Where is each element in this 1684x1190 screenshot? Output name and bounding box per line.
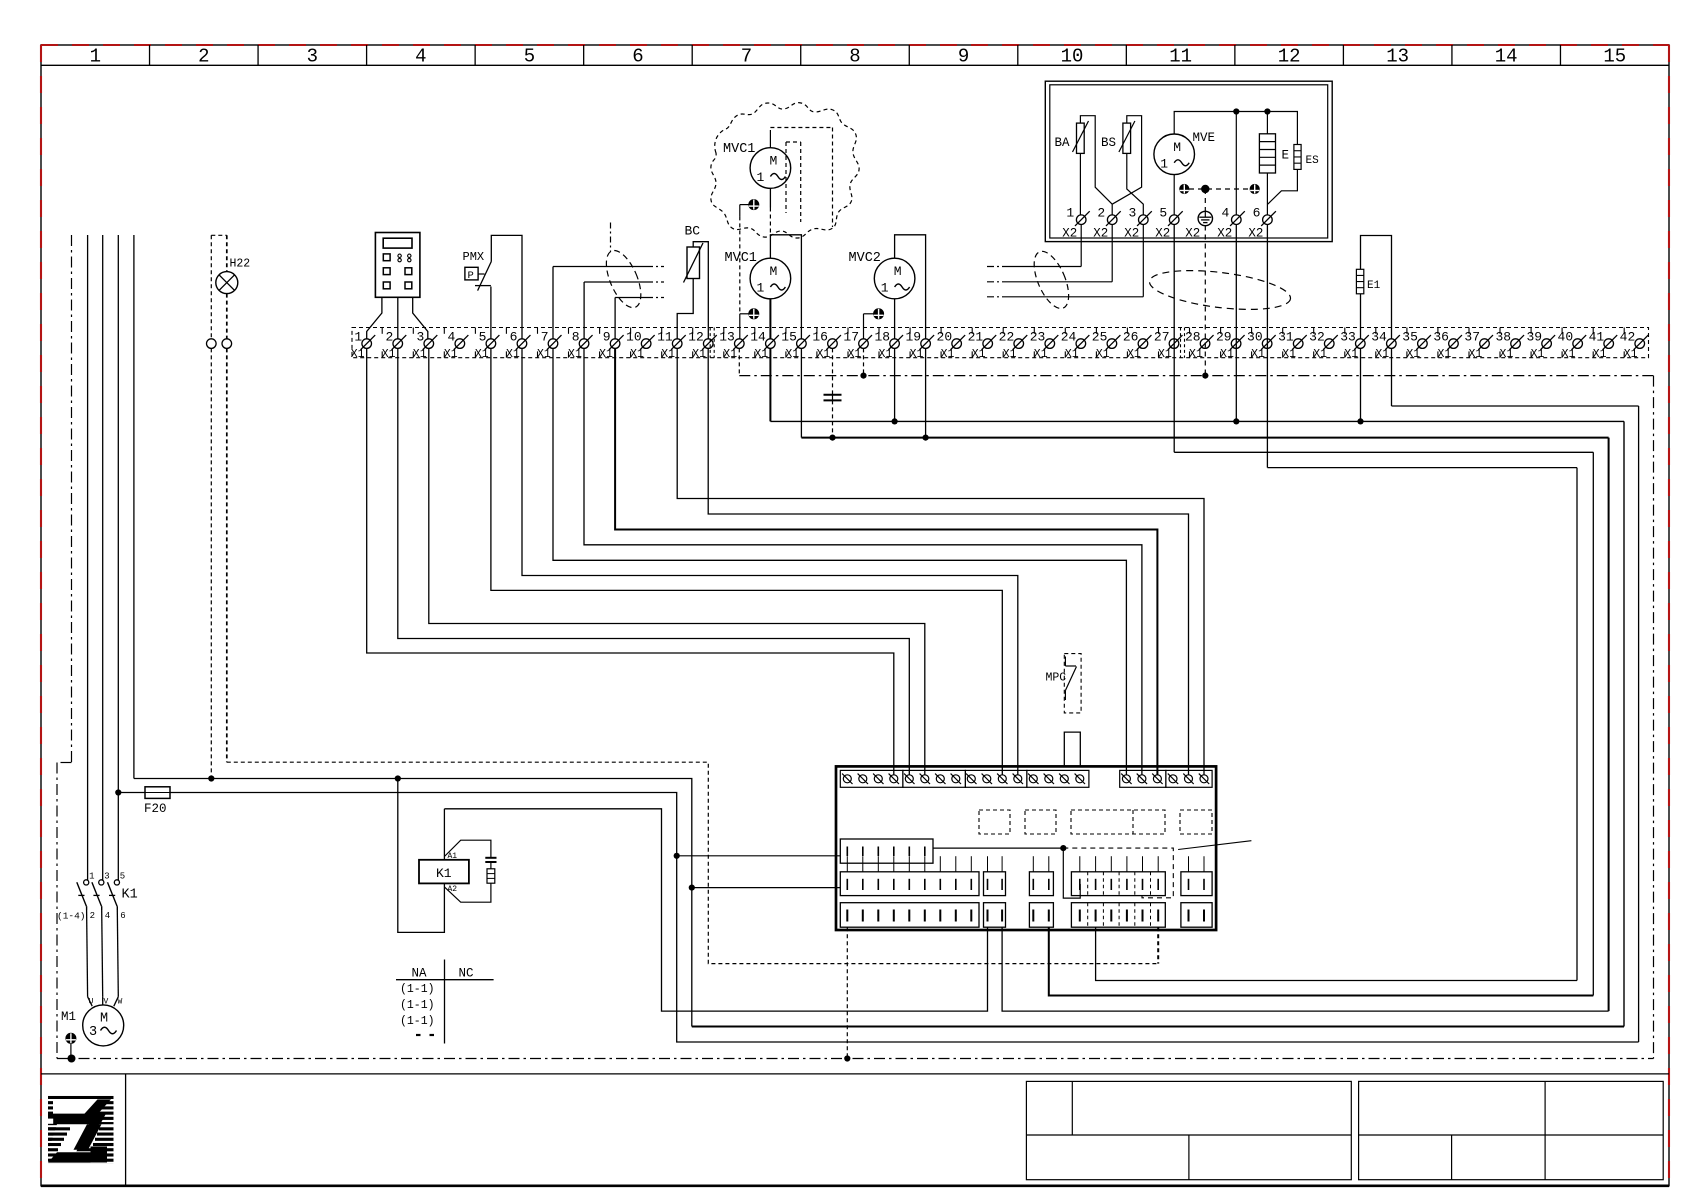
MVC2 earth symbol [874, 309, 884, 319]
terminal X1:33 [1340, 330, 1369, 362]
wire MVC1 to X1:14 [769, 299, 771, 339]
svg-text:37: 37 [1464, 330, 1480, 345]
wire J1 internal link [933, 847, 1063, 849]
svg-text:(1-1): (1-1) [400, 983, 435, 996]
svg-text:4: 4 [105, 911, 110, 921]
fuse ES [1294, 145, 1301, 170]
junction X1:33 neutral [1360, 348, 1362, 421]
svg-text:39: 39 [1526, 330, 1542, 345]
wire BC to X1:12 [693, 242, 708, 339]
junction X1:18 neutral [894, 348, 896, 421]
svg-text:20: 20 [937, 330, 953, 345]
H22 connector contact left [207, 339, 217, 349]
svg-text:28: 28 [1185, 330, 1201, 345]
motor M1 leads [88, 997, 93, 1007]
terminal X1:29 [1216, 330, 1245, 362]
H22 branch left dashed wire [210, 235, 212, 338]
terminal X1:13 [719, 330, 748, 362]
terminal X2:5 [1155, 205, 1183, 240]
svg-text:1: 1 [756, 170, 764, 185]
svg-text:A2: A2 [448, 885, 458, 894]
terminal X1:11 [657, 330, 686, 362]
svg-text:2: 2 [1097, 205, 1105, 220]
svg-text:16: 16 [812, 330, 828, 345]
cable marker ellipse middle [1027, 247, 1076, 314]
relay coil K1 [419, 860, 469, 884]
terminal X2:3 [1124, 205, 1152, 240]
terminal X1:23 [1030, 330, 1059, 362]
H22 return dashed net [227, 762, 1158, 963]
junction earth bus X1:28 [1202, 373, 1208, 379]
rail neutral MVE right [1623, 421, 1625, 1026]
rail neutral MVC right [1608, 438, 1610, 1012]
svg-text:U: U [89, 997, 94, 1006]
terminal X1:10 [626, 330, 655, 362]
svg-text:X1: X1 [1500, 348, 1514, 361]
svg-text:21: 21 [968, 330, 984, 345]
MPC jumper loop to control unit [1064, 732, 1080, 766]
svg-text:X1: X1 [910, 348, 924, 361]
terminal X1:15 [781, 330, 810, 362]
connector J4 row2 small B [1029, 872, 1053, 896]
connector J5 row2 wide [1071, 872, 1165, 896]
svg-text:MPC: MPC [1046, 672, 1067, 685]
wire X2:2 to cable [1111, 225, 1113, 282]
svg-text:8: 8 [849, 46, 860, 68]
svg-text:E: E [1282, 149, 1290, 163]
fuse F20 [145, 787, 170, 799]
svg-text:X1: X1 [1437, 348, 1451, 361]
MPC dashed enclosure [1064, 654, 1081, 713]
terminal X1:17 [843, 330, 872, 362]
svg-text:X1: X1 [630, 348, 644, 361]
svg-text:34: 34 [1371, 330, 1387, 345]
terminal X1:1 [351, 330, 376, 362]
terminal X2:4 [1217, 205, 1245, 240]
svg-text:3: 3 [104, 872, 109, 882]
connector J7 row3 long [840, 903, 979, 928]
connector J8 row3 small A [984, 903, 1006, 928]
lamp H22 [216, 258, 251, 294]
svg-text:11: 11 [1169, 46, 1192, 68]
terminal X1:42 [1620, 330, 1649, 362]
wire ES bottom diagonal [1267, 169, 1297, 204]
svg-text:X1: X1 [444, 348, 458, 361]
terminal X1:5 [475, 330, 500, 362]
unit box X2 outer [1045, 81, 1332, 241]
svg-text:(1-1): (1-1) [400, 999, 435, 1012]
wire X1:8 to control unit [584, 348, 1142, 775]
svg-text:X1: X1 [723, 348, 737, 361]
svg-text:4: 4 [448, 330, 456, 345]
wire MVE top rail [1174, 112, 1297, 145]
svg-text:1: 1 [1066, 205, 1074, 220]
screw terminal group 2 [903, 770, 966, 787]
cable marker ellipse left [599, 246, 648, 313]
neutral bus MVE [770, 420, 1624, 422]
svg-text:41: 41 [1589, 330, 1605, 345]
option earth dashed down to X1:13 [739, 216, 741, 313]
terminal X1:28 [1185, 330, 1214, 362]
svg-text:X1: X1 [413, 348, 427, 361]
connector J1 row1 [840, 839, 933, 863]
wire BS bottom [1127, 153, 1144, 215]
junction M1 earth to PE [68, 1055, 76, 1063]
dashed jumper box 1 [979, 810, 1010, 834]
svg-text:X2: X2 [1124, 227, 1139, 241]
terminal X1:27 [1154, 330, 1183, 362]
PE right riser dash-dot [1653, 376, 1655, 1059]
svg-text:M: M [769, 264, 777, 279]
cable marker ellipse right [1147, 264, 1292, 316]
wire X2:5 down through X1:27 [1173, 225, 1175, 453]
wire X1:3 to control unit [429, 348, 925, 775]
controller keypad unit [375, 233, 420, 298]
svg-text:P: P [468, 270, 474, 282]
wire MVE bottom to X2:5 [1173, 175, 1175, 215]
wire MVC2 to X1:19 [895, 235, 926, 339]
wire X1:34 net right [1391, 348, 1393, 406]
wire X2:4 drop [1235, 112, 1237, 216]
svg-text:X1: X1 [475, 348, 489, 361]
contactor K1 main contact 3/4 [92, 872, 110, 997]
screw terminal group 1 [840, 770, 903, 787]
svg-text:6: 6 [1253, 205, 1261, 220]
svg-text:ES: ES [1306, 155, 1320, 167]
H22 connector contact right [222, 339, 232, 349]
heater E1 [1356, 269, 1363, 294]
terminal X2:1 [1062, 205, 1090, 240]
svg-text:F20: F20 [144, 802, 167, 816]
wire CU J10 to X2:6 rail [1096, 927, 1577, 980]
wire X1:12 to control unit [708, 348, 1188, 775]
screw terminal group 6 [1166, 770, 1212, 787]
junction K1 feed [395, 775, 401, 781]
terminal X1:24 [1061, 330, 1090, 362]
control unit U1 box [836, 766, 1216, 930]
option motor bottom wire [769, 188, 771, 207]
X2 earth dashed drop [1204, 189, 1206, 212]
terminal X1:3 [413, 330, 438, 362]
rail X2:6 right [1576, 468, 1578, 981]
connector J9 row3 small B [1029, 903, 1053, 928]
svg-text:X1: X1 [351, 348, 365, 361]
wire X1:15 drop [800, 348, 802, 437]
terminal X1:38 [1495, 330, 1524, 362]
title band separator [41, 1073, 1669, 1075]
junction F20 tap [115, 789, 121, 795]
svg-text:X1: X1 [1469, 348, 1483, 361]
svg-text:A1: A1 [448, 852, 458, 861]
wire X1:17 earth dashed to PE bus [863, 348, 865, 375]
wire N net to rail [692, 1026, 1624, 1028]
svg-text:X1: X1 [1406, 348, 1420, 361]
svg-text:12: 12 [688, 330, 704, 345]
controller wire to X1:2 [397, 297, 399, 339]
svg-text:40: 40 [1558, 330, 1574, 345]
svg-text:X1: X1 [1251, 348, 1265, 361]
option motor top dashed link [769, 134, 771, 148]
svg-text:X1: X1 [1282, 348, 1296, 361]
svg-text:2: 2 [90, 911, 95, 921]
motor MVC1 (option) [750, 148, 791, 189]
rail X1:34 right [1638, 406, 1640, 1042]
option earth bracket [740, 204, 749, 206]
wire X2:1 to cable [1080, 225, 1082, 267]
X2 earth dashed link [1189, 188, 1250, 190]
wire MVC1 to X1:15 [770, 235, 801, 339]
svg-text:X1: X1 [1531, 348, 1545, 361]
wire PMX to X1:6 [491, 235, 522, 338]
svg-text:2: 2 [385, 330, 393, 345]
svg-text:H22: H22 [230, 258, 251, 271]
svg-text:X1: X1 [941, 348, 955, 361]
svg-text:9: 9 [958, 46, 969, 68]
wire X2:3 to cable [1142, 225, 1144, 297]
H22 branch right dashed wire [226, 235, 228, 271]
svg-text:14: 14 [1495, 46, 1518, 68]
svg-text:BA: BA [1055, 136, 1071, 150]
svg-text:X1: X1 [816, 348, 830, 361]
svg-text:2: 2 [198, 46, 209, 68]
switch MPC [1065, 657, 1076, 701]
svg-text:10: 10 [626, 330, 642, 345]
svg-text:X1: X1 [382, 348, 396, 361]
title block boxes [1026, 1081, 1663, 1179]
svg-text:X1: X1 [1562, 348, 1576, 361]
wire CU earth dashed drop [846, 927, 848, 1058]
wire X1:5 to control unit [491, 348, 1002, 775]
sensor BS [1119, 121, 1135, 153]
strip section divider X1:12/13 [709, 328, 711, 358]
ruler band [41, 64, 1669, 66]
svg-text:K1: K1 [122, 888, 138, 903]
svg-text:33: 33 [1340, 330, 1356, 345]
wire X1:14 neutral drop [769, 348, 771, 421]
svg-text:BC: BC [685, 224, 701, 239]
X2 earth symbol left [1180, 184, 1189, 193]
wire CU row1 to F20 net [677, 855, 841, 857]
svg-text:E1: E1 [1367, 280, 1381, 292]
wire phase to F20 [118, 792, 145, 794]
svg-text:NC: NC [459, 967, 474, 981]
svg-text:X1: X1 [1313, 348, 1327, 361]
svg-text:X1: X1 [568, 348, 582, 361]
wire E1 bottom to X1:33 [1360, 294, 1362, 339]
wire BA bottom [1079, 153, 1081, 215]
junction X1:17 PE [860, 373, 866, 379]
svg-text:36: 36 [1433, 330, 1449, 345]
wire X2:5 net right [1174, 451, 1593, 453]
strip section divider X1:27/28 [1180, 328, 1182, 358]
motor MVE [1154, 134, 1195, 175]
snubber branch top [444, 840, 491, 857]
sensor BA [1073, 121, 1089, 153]
svg-text:42: 42 [1620, 330, 1636, 345]
terminal X1:19 [905, 330, 934, 362]
svg-text:X2: X2 [1155, 227, 1170, 241]
terminal X1:25 [1092, 330, 1121, 362]
svg-text:(1-1): (1-1) [400, 1015, 435, 1028]
dashed jumper box 4 [1180, 810, 1212, 834]
svg-text:X1: X1 [692, 348, 706, 361]
svg-text:10: 10 [1061, 46, 1084, 68]
feeder line L2 [102, 235, 104, 881]
contactor K1 main contact 5/6 [108, 872, 126, 997]
terminal X1:8 [568, 330, 593, 362]
snubber branch bottom [444, 883, 491, 902]
neutral bus MVC [801, 437, 1608, 439]
controller wire to X1:3 [413, 297, 428, 339]
svg-text:MVC1: MVC1 [725, 251, 757, 266]
svg-text:X1: X1 [506, 348, 520, 361]
svg-text:X1: X1 [661, 348, 675, 361]
svg-text:23: 23 [1030, 330, 1046, 345]
callout pointer line [1178, 841, 1251, 850]
svg-text:X2: X2 [1248, 227, 1263, 241]
dashed jumper box 3 [1071, 810, 1165, 834]
terminal X1:35 [1402, 330, 1431, 362]
MVC1 earth symbol [749, 309, 759, 319]
svg-text:X1: X1 [785, 348, 799, 361]
terminal X1:41 [1589, 330, 1618, 362]
terminal X1:37 [1464, 330, 1493, 362]
PE top bus dash-dot [739, 375, 1653, 377]
svg-text:M: M [894, 264, 902, 279]
terminal X1:4 [444, 330, 469, 362]
svg-text:X1: X1 [599, 348, 613, 361]
terminal X1:32 [1309, 330, 1338, 362]
svg-text:PMX: PMX [463, 250, 485, 264]
svg-text:38: 38 [1495, 330, 1511, 345]
svg-text:5: 5 [524, 46, 535, 68]
svg-text:1: 1 [881, 281, 889, 296]
terminal X1:2 [382, 330, 407, 362]
dashed callout outline [1063, 848, 1173, 898]
wire X1:11 to control unit [677, 348, 1204, 775]
H22 branch top dashed bridge [211, 234, 227, 236]
connector J3 row2 small A [984, 872, 1006, 896]
feeder line L0 dash-dot [71, 235, 73, 763]
svg-text:X1: X1 [1096, 348, 1110, 361]
connector J6 row2 right [1181, 872, 1212, 896]
screw terminal group 4 [1027, 770, 1089, 787]
wire phase N feed [134, 779, 692, 1027]
capacitor C1 dashed to bus [832, 400, 834, 437]
motor M1 [83, 1005, 124, 1046]
svg-text:26: 26 [1123, 330, 1139, 345]
svg-text:4: 4 [1221, 205, 1229, 220]
svg-text:30: 30 [1247, 330, 1263, 345]
X2 PE terminal symbol [1198, 211, 1212, 225]
svg-text:X2: X2 [1062, 227, 1077, 241]
svg-text:X1: X1 [1034, 348, 1048, 361]
option earth symbol [749, 200, 759, 210]
svg-text:3: 3 [1128, 205, 1136, 220]
snubber capacitor plates [485, 857, 496, 859]
PE bottom bus dash-dot [57, 1058, 1654, 1060]
wire X1:1 to control unit [367, 348, 894, 775]
wire MVC2 to X1:18 [894, 299, 896, 339]
feeder line N [133, 235, 135, 779]
svg-text:32: 32 [1309, 330, 1325, 345]
svg-text:29: 29 [1216, 330, 1232, 345]
svg-text:6: 6 [510, 330, 518, 345]
wire E bottom to X2:6 [1266, 173, 1268, 215]
contact table NA/NC [396, 960, 494, 1044]
junction MVE rail / X2:4 [1233, 108, 1239, 114]
svg-text:X1: X1 [972, 348, 986, 361]
wire F20 net [170, 793, 1639, 1043]
svg-text:1: 1 [90, 46, 101, 68]
terminal X1:26 [1123, 330, 1152, 362]
screw terminal group 5 [1120, 770, 1166, 787]
svg-text:X2: X2 [1093, 227, 1108, 241]
connector J10 row3 wide [1071, 903, 1165, 928]
heater E [1259, 134, 1275, 173]
terminal X1:18 [874, 330, 903, 362]
wire CU J8 to MVC rail [1002, 927, 1609, 1011]
capacitor C1 dashed drop from X1:16 [832, 348, 834, 394]
X2 earth symbol right [1250, 184, 1259, 193]
svg-text:3: 3 [416, 330, 424, 345]
svg-text:(1-4): (1-4) [57, 911, 86, 922]
svg-text:X1: X1 [848, 348, 862, 361]
svg-text:1: 1 [756, 281, 764, 296]
svg-text:9: 9 [603, 330, 611, 345]
svg-text:X1: X1 [1375, 348, 1389, 361]
unit box X2 inner [1050, 85, 1328, 238]
logo cell divider [125, 1074, 127, 1186]
terminal X1:30 [1247, 330, 1276, 362]
wire X1:9 probe [614, 298, 616, 339]
option dashed stub pair [786, 141, 801, 143]
terminal X1:39 [1526, 330, 1555, 362]
svg-text:17: 17 [843, 330, 859, 345]
svg-text:X1: X1 [1593, 348, 1607, 361]
svg-text:31: 31 [1278, 330, 1294, 345]
wire X1:7 to control unit [553, 348, 1126, 775]
svg-text:14: 14 [750, 330, 766, 345]
svg-text:K1: K1 [436, 866, 452, 881]
svg-text:13: 13 [719, 330, 735, 345]
svg-text:X1: X1 [1220, 348, 1234, 361]
svg-text:22: 22 [999, 330, 1015, 345]
svg-text:35: 35 [1402, 330, 1418, 345]
svg-text:M: M [769, 154, 777, 169]
terminal X1:7 [537, 330, 562, 362]
wire X2:6 down through X1:30 [1266, 225, 1268, 468]
wire CU J9 to X2:5 rail [1049, 927, 1594, 995]
row2 pin leads [847, 856, 1204, 872]
terminal X1:21 [968, 330, 997, 362]
svg-text:X1: X1 [1624, 348, 1638, 361]
contactor K1 linkage dashes [78, 894, 84, 896]
svg-text:15: 15 [1603, 46, 1626, 68]
wire BS top hook [1112, 116, 1141, 205]
wire X2:4 down through X1:29 [1235, 225, 1237, 422]
terminal X1:9 [599, 330, 624, 362]
svg-text:M: M [1173, 140, 1181, 155]
terminal X1:22 [999, 330, 1028, 362]
svg-text:X1: X1 [1158, 348, 1172, 361]
MVC1 earth bracket to X1:13 [740, 313, 749, 315]
M1 earth wire [70, 1043, 72, 1058]
wire X1:2 to control unit [398, 348, 910, 775]
svg-text:X1: X1 [1065, 348, 1079, 361]
svg-text:MVE: MVE [1193, 131, 1216, 145]
terminal strip X1 outline [352, 328, 1649, 358]
